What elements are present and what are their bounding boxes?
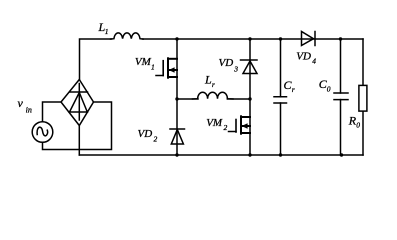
bridge diode vertical lead bbox=[78, 84, 80, 121]
wire top rail left segment with left corner down to bridge bbox=[80, 39, 112, 80]
wire Cr branch top bbox=[280, 39, 282, 97]
inductor L1 bbox=[111, 33, 144, 39]
diode VD3 triangle bbox=[243, 61, 257, 74]
wire bridge bottom vertex to bottom rail bbox=[78, 126, 80, 156]
svg-text:1: 1 bbox=[105, 27, 109, 36]
rectifier bridge diamond bbox=[61, 80, 94, 126]
wire Cr branch bottom bbox=[280, 103, 282, 155]
wire from source bottom around to bridge right vertex bbox=[43, 102, 112, 150]
diode VD4 triangle bbox=[302, 32, 314, 46]
svg-text:in: in bbox=[26, 105, 32, 114]
diode VD4 cathode bar bbox=[314, 32, 316, 46]
wire VM2 branch vertical bbox=[249, 99, 251, 155]
svg-text:VD: VD bbox=[296, 50, 311, 62]
capacitor Cr bbox=[274, 97, 287, 103]
node bottom rail / C0 bbox=[340, 153, 343, 156]
diode VD3 cathode bar bbox=[241, 59, 258, 61]
wire VM1 branch vertical bbox=[176, 39, 178, 99]
ac source sine wave bbox=[37, 127, 48, 136]
svg-text:0: 0 bbox=[327, 85, 331, 94]
svg-text:4: 4 bbox=[312, 57, 316, 66]
wire middle rail right bbox=[227, 98, 250, 100]
resistor R0 box bbox=[359, 85, 367, 111]
svg-text:VM: VM bbox=[135, 56, 152, 68]
svg-text:3: 3 bbox=[233, 64, 238, 73]
node bottom rail / Cr bbox=[279, 153, 282, 156]
svg-text:r: r bbox=[212, 80, 215, 89]
svg-text:VD: VD bbox=[138, 128, 153, 140]
wire C0 branch top bbox=[340, 39, 342, 93]
diode VD2 triangle bbox=[171, 130, 183, 144]
transistor VM2 bbox=[229, 116, 251, 133]
wire top rail right segment bbox=[143, 38, 364, 40]
node top rail / VM1 bbox=[175, 37, 178, 40]
bridge diode cathode bar bbox=[70, 91, 88, 93]
transistor VM1 bbox=[156, 58, 177, 77]
node top rail / C0 bbox=[339, 37, 342, 40]
node bottom rail / VM2 bbox=[248, 153, 251, 156]
wire right edge bottom bbox=[362, 112, 364, 156]
svg-text:v: v bbox=[18, 96, 24, 110]
svg-text:1: 1 bbox=[151, 62, 155, 71]
capacitor C0 bbox=[334, 93, 348, 100]
node top rail / VD3 bbox=[248, 37, 251, 40]
svg-text:2: 2 bbox=[154, 134, 158, 143]
svg-text:2: 2 bbox=[224, 123, 228, 132]
node middle rail / VM2 drain bbox=[248, 97, 251, 100]
wire bottom rail bbox=[79, 154, 363, 156]
node top rail / Cr bbox=[279, 37, 282, 40]
node middle rail / VM1 source bbox=[175, 97, 178, 100]
wire right edge top bbox=[362, 39, 364, 85]
diode VD2 cathode bar bbox=[170, 128, 185, 130]
svg-text:VM: VM bbox=[206, 117, 223, 129]
wire from source top to bridge left vertex bbox=[43, 102, 62, 122]
wire C0 branch bottom bbox=[340, 100, 342, 155]
inductor Lr bbox=[193, 92, 234, 99]
svg-text:r: r bbox=[292, 85, 295, 94]
wire VD3 branch vertical bbox=[249, 39, 251, 99]
node bottom rail / VD2 bbox=[175, 153, 178, 156]
wire VD2 branch vertical bbox=[176, 99, 178, 155]
wire middle rail left bbox=[177, 98, 198, 100]
svg-text:L: L bbox=[204, 73, 212, 87]
ac source v_in circle bbox=[32, 122, 53, 143]
svg-text:VD: VD bbox=[219, 57, 234, 69]
bridge diode triangle bbox=[70, 93, 88, 113]
svg-text:0: 0 bbox=[356, 121, 360, 130]
